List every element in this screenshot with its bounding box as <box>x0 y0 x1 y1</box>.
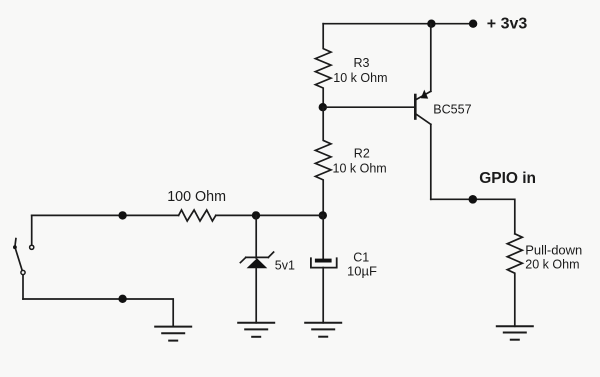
ground zener <box>238 323 274 337</box>
svg-text:GPIO in: GPIO in <box>479 170 536 187</box>
svg-text:5v1: 5v1 <box>275 258 295 272</box>
node junction R3-R2-base <box>319 103 327 111</box>
node dot on main wire <box>118 211 126 219</box>
wire GPIO <box>431 199 515 234</box>
svg-text:C1: C1 <box>353 250 369 264</box>
switch S1 <box>13 215 34 299</box>
wire bottom switch <box>23 299 173 327</box>
resistor pull-down 20k <box>507 234 522 326</box>
ground bottom-left <box>155 327 191 341</box>
resistor 100 Ohm <box>179 210 216 221</box>
svg-text:10 k Ohm: 10 k Ohm <box>333 71 387 85</box>
node junction zener <box>252 211 260 219</box>
wire base <box>323 106 414 108</box>
wire top +3v3 rail <box>323 23 473 25</box>
ground pull-down <box>497 326 533 339</box>
svg-text:+ 3v3: + 3v3 <box>487 16 528 33</box>
resistor R3 <box>315 24 331 108</box>
node dot on bottom wire <box>118 295 126 303</box>
svg-text:100 Ohm: 100 Ohm <box>167 189 226 205</box>
node GPIO terminal <box>469 195 478 204</box>
svg-text:20 k Ohm: 20 k Ohm <box>525 257 579 271</box>
node +3v3 terminal <box>469 20 477 28</box>
node junction emitter-rail <box>427 20 435 28</box>
svg-text:R3: R3 <box>354 56 370 70</box>
svg-text:10 k Ohm: 10 k Ohm <box>333 162 387 176</box>
node junction R2-C1-wire <box>319 211 327 219</box>
transistor Q1 BC557 <box>415 24 431 200</box>
svg-text:Pull-down: Pull-down <box>525 242 582 257</box>
svg-text:R2: R2 <box>354 147 370 161</box>
diode zener D1 5v1 <box>240 215 273 322</box>
svg-text:10µF: 10µF <box>347 264 377 279</box>
wire resistor to junction <box>216 214 323 216</box>
wire main horizontal left <box>32 214 179 216</box>
capacitor C1 <box>311 215 337 322</box>
ground capacitor <box>305 323 341 337</box>
resistor R2 <box>315 107 331 215</box>
svg-text:BC557: BC557 <box>433 102 471 116</box>
